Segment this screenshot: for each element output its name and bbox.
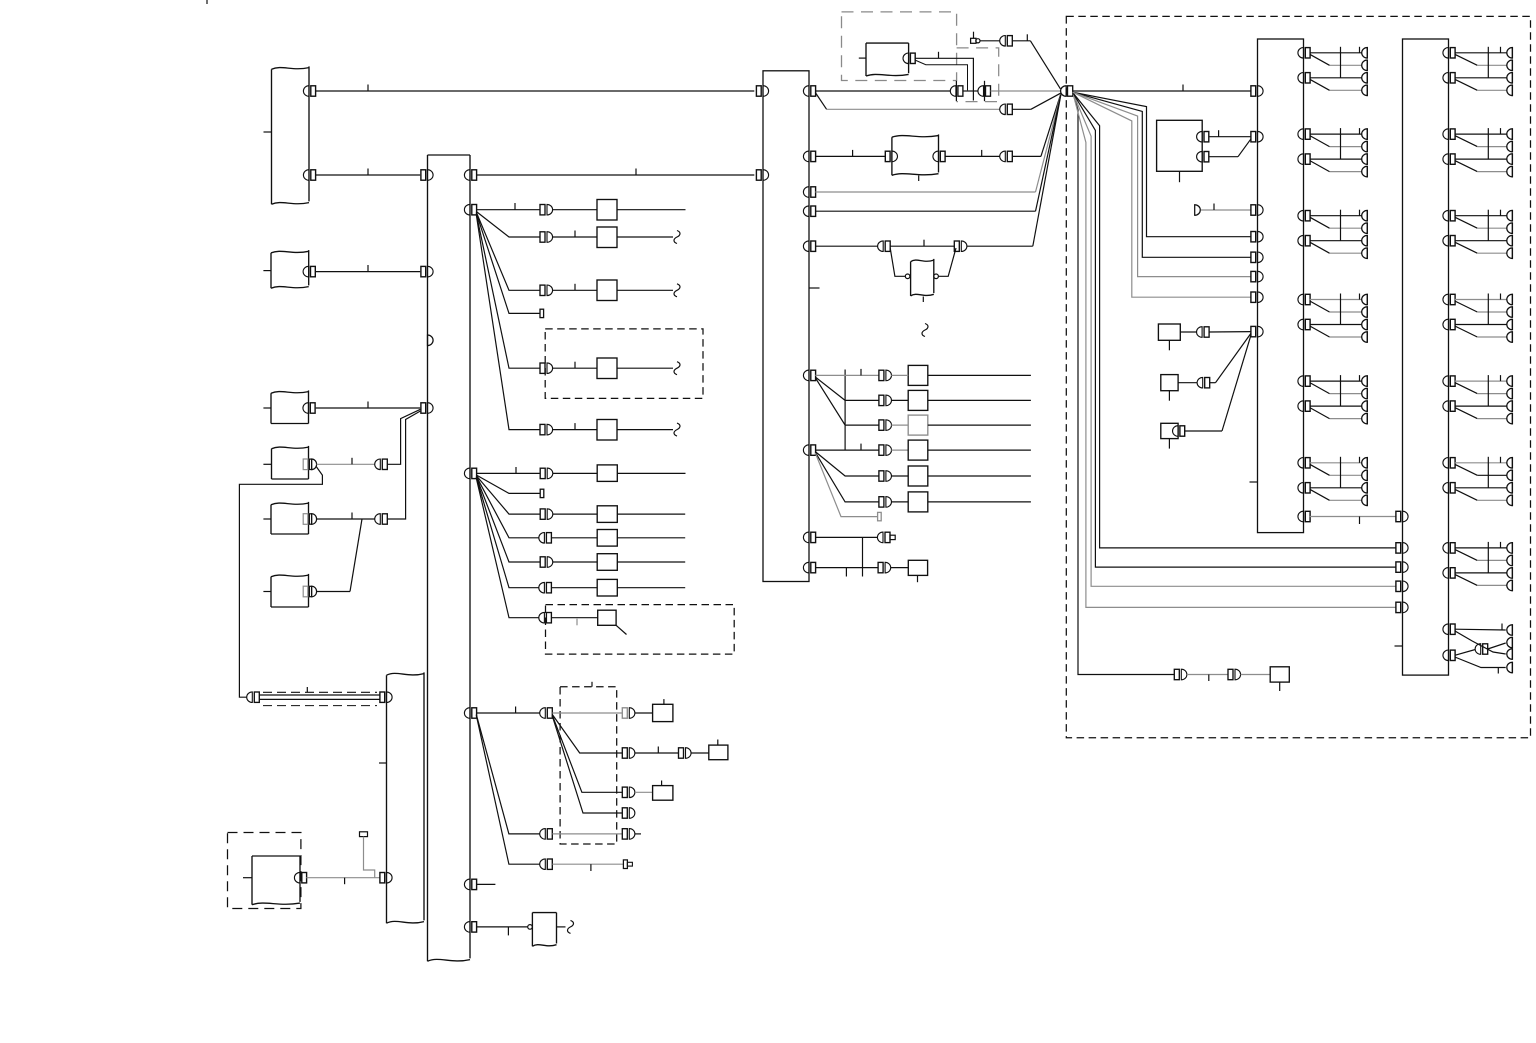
fan1 row2 module [597,227,617,248]
bundle wire 4 [1073,93,1396,568]
bar5 left pin y586 [1396,581,1408,592]
inline connector filter [1000,36,1013,47]
bundle wire A4 [1073,92,1251,297]
inline connector D [375,459,388,470]
bar3 right pin y211 [803,206,815,217]
wire y382 [1178,382,1197,384]
fanC row2 connector [879,395,892,406]
module right pin [933,151,945,162]
fan3 row3 branch wire [552,715,622,792]
wire y332 [1180,331,1196,333]
fan3 row5 connector 2 [622,829,635,840]
fanC row3 branch [815,378,879,425]
fan3 row2 connector 2 [679,748,692,759]
bar5 connector tree y52 [1443,47,1513,96]
bar4 right pin y516 [1298,511,1310,522]
bar5 left pin y567 [1396,562,1408,573]
fanC row5 module [908,466,928,486]
fan3 trunk wire [476,707,540,714]
sensor box pin 1 [1197,131,1209,142]
fan1 row3 module [597,280,617,301]
wire ground to bar2b (gray) [306,878,380,885]
wire sensor1 to bar4 [1209,130,1252,137]
continuation squiggle G [568,920,574,933]
bar4 connector tree y462 [1298,457,1367,506]
fanC row3 wire segment (gray) [891,424,908,426]
fan1 row5 squiggle [674,362,680,375]
relay pin [903,53,915,64]
component box A (torn) [264,66,310,204]
fan3 row5 branch wire [476,715,540,834]
bar4 connector tree y299 [1298,294,1367,343]
bar5 connector tree y134 [1443,128,1512,177]
fan2 row7 stub diagonal [616,625,626,634]
bottom row wire (gray) [1187,675,1228,682]
fan2 row6 connector [539,582,552,593]
wire C to bar2 [316,402,421,409]
wire y211 [815,95,1061,212]
fan3 row5 stub [635,833,641,835]
pass-through module (torn) [892,134,939,181]
bottom cluster wire 3 [1455,650,1476,656]
fan3 row1 wire (gray) [552,712,622,714]
fan2 row3 wire out [617,513,685,515]
wire y332 to bar4 [1209,331,1251,333]
junction bar 2b [387,672,425,923]
wire A1 to junction bar 3 [315,85,754,92]
fanC row6 wire segment [891,501,908,503]
fan1 row2 wire [552,231,597,238]
fanC row4 wire out [928,449,1031,451]
fan3 row2 connector [622,748,635,759]
fan2 row6 wire out [617,587,685,589]
bar2 right pin y927 [464,922,476,933]
fanC row6 connector [879,497,892,508]
fanC row1 wire (gray) [815,369,879,376]
inline connector y332 [1197,327,1210,338]
wire y246 segment 2 [890,240,954,247]
page tick mark [206,0,208,4]
fan3 row1 wire to module [635,712,653,714]
wire D to bar2 pin [387,409,420,464]
fan1 row5 wire out [617,367,673,369]
wire y246 to gateway [967,95,1061,246]
wire y568 to module [891,567,909,569]
relay box (torn) [859,43,909,76]
fanC row6 wire out [928,501,1031,503]
resistor circle pin left [905,274,910,279]
fan2 row3 connector [540,509,553,520]
bar2b edge tick [379,762,387,764]
fan1 row6 module [597,420,617,441]
fan2 row4 wire mid [551,537,597,539]
fan2 row7 wire mid [551,618,597,626]
fanC row6 module [908,492,928,512]
bottom cluster terminal 3 [1507,648,1513,659]
inline connector y568 [878,562,891,573]
bar3 right pin y156 [803,151,815,162]
relay wire b [915,60,968,90]
bar2 right pin y175 [464,170,476,181]
bottom cluster terminal 2 [1507,637,1513,648]
wire y431 diagonal to bar4 pin [1184,335,1251,431]
fanC row3 wire out [928,424,1031,426]
bundle wire 2 [1073,93,1396,608]
fanC row3 connector [879,420,892,431]
fanC row5 wire out [928,475,1031,477]
sensor box pin 2 [1197,151,1209,162]
wire y91 to gateway (gray) [991,90,1061,92]
fan2 row3 module [597,506,617,523]
sensor box y431 pin [1173,426,1185,437]
fanC row4 connector [879,445,892,456]
fanC gray stub wire [815,453,877,517]
bottom cluster terminal 4 [1498,662,1512,674]
component box G (torn) [532,913,556,947]
inline connector y156 [1000,151,1013,162]
connector pin A-2 [303,170,315,181]
bar5 connector tree y299 [1443,294,1512,343]
relay dashed enclosure 2 [957,48,999,102]
wire B to bar2 [315,265,420,272]
ground component box (torn) [243,856,300,905]
bar4 left pin y331 [1251,326,1263,337]
fanC gray stub terminal [878,512,882,520]
inline connector y109 [1000,104,1013,115]
fanC row4 wire [815,444,879,451]
bar4 edge tick y482 [1250,481,1258,483]
wire y109 to gateway [1012,93,1060,109]
bar5 left pin y516 [1396,511,1408,522]
bottom cluster wire 2 [1455,631,1506,654]
inline connector y537 [877,532,890,543]
junction bar 4 [1258,39,1304,533]
fan2 row5 connector [540,557,553,568]
fan3 row2 wire to module [691,752,709,754]
box D pin [303,459,316,470]
box B pin [303,266,315,277]
fanC row4 wire segment [891,449,908,451]
fan2 row7 module [598,610,616,625]
bar3 left pin y91 [756,86,768,97]
resistor circle pin right [934,274,939,279]
bottom cluster wire 1 [1455,624,1506,631]
fan1 row1 wire to module [552,209,597,211]
bar3 right pin y537 [803,532,815,543]
fanC row2 branch [815,377,879,400]
bar3 right pin y246 [803,241,815,252]
sensor box y332 [1158,324,1180,350]
box G circle pin [528,925,533,930]
bar4 connector tree y52 [1298,47,1367,96]
fan1 row4 stub terminal [540,309,544,317]
fan3 row6 branch wire [476,715,540,864]
box C pin [303,403,315,414]
bar2 left pin y175 [421,170,433,181]
bundle wire A2 [1073,92,1251,257]
module y568 [908,560,927,582]
fan3 row2 module [709,740,728,760]
resistor box (torn) [911,259,934,302]
fan2 row3 wire mid [553,513,598,515]
fan2 row4 branch wire [476,476,539,538]
wire y192 (gray) [815,94,1061,192]
wire y568 [815,567,878,569]
bar3 left pin y175 [756,170,768,181]
fan2 row1 connector [540,468,553,479]
bar5 edge tick y646 [1395,645,1403,647]
connector wall a [955,81,957,101]
bundle wire 1 [1073,93,1175,675]
bundle wire A1 [1073,92,1251,237]
bottom row wire 2 (gray) [1241,674,1271,676]
wire E to inline connector [317,513,375,520]
fan1 row2 wire out [617,236,673,238]
fan3 row1 module [653,699,673,722]
fan3 row1 connector [622,708,635,719]
bottom cluster wire 3b [1488,643,1506,649]
resistor branch wire left [890,248,905,276]
bar2 right pin y713 (fan3) [464,708,476,719]
shielded cable right connector [380,692,392,703]
wire D second route to shielded cable [239,467,322,698]
wire bar2 to bar3 y175 [476,169,754,176]
bar2b left pin y877 [380,872,392,883]
bottom row module [1270,667,1289,691]
fan1 row6 branch wire [476,215,540,430]
fan2 row3 branch wire [476,476,540,514]
bottom cluster terminal 1 [1507,624,1513,635]
fan1 row5 branch wire [476,214,540,368]
gray terminal dome y210 [1195,205,1201,216]
fan1 row5 wire [552,362,597,369]
fan2 row1 wire mid [553,472,598,474]
fan1 row3 wire out [617,289,673,291]
fanC row5 branch [815,452,879,476]
fan1 row6 squiggle [674,423,680,436]
gateway connector pin [1061,86,1073,97]
gateway wire to bar4 y91 [1073,85,1251,92]
inline connector E [375,514,388,525]
bottom row connector b [1228,669,1241,680]
fan1 row3 wire [552,284,597,291]
bottom cluster wire 4 [1455,657,1506,668]
fan3 row6 connector [540,859,553,870]
bar5 left pin y607 [1396,602,1408,613]
sensor box y136 (left of bar4) [1157,120,1203,182]
box F pin [303,586,316,597]
wire y91 to inline pair [815,90,950,92]
bar5 connector tree y547 [1443,542,1513,591]
component box E (torn) [263,502,308,534]
bar3 right pin y192 [803,187,815,198]
fan1 row4 branch wire [476,213,540,313]
fan2 row6 wire mid [551,587,597,589]
component box D (torn) [263,446,308,479]
fan3 dashed enclosure [560,682,617,844]
fan1 row1 module [597,200,617,221]
continuation squiggle center [922,324,928,337]
bar2 left pin y272 [421,266,433,277]
junction bar 5 [1403,39,1449,675]
wire A2 to junction bar 2 [315,169,420,176]
inline connector y382 [1197,377,1210,388]
fanC row1 wire segment [891,374,908,376]
bar5 bottom pin 1 [1443,624,1455,635]
bar2 right pin y884 stub [464,879,495,890]
bar2 left pin y408 [421,403,433,414]
bundle wire 3 [1073,93,1396,587]
bar5 connector tree y381 [1443,375,1513,424]
bar4 left pin y276 [1251,271,1263,282]
bar3 right pin y375 (fan) [803,370,815,381]
bar3 edge tick y288 [809,287,820,289]
fan1 row6 wire [552,423,597,430]
fan3 row6 cap terminal [623,860,632,869]
fan2 row5 branch wire [476,477,540,562]
sensor box y382 [1161,375,1178,401]
fanC row3 module (gray) [908,415,928,435]
wire F joining wire E [317,519,362,592]
bar5 connector tree y462 [1443,457,1513,506]
fanC row1 connector [879,370,892,381]
fan1 row2 connector [540,232,553,243]
fan1 row5 connector [540,363,553,374]
bottom cluster connector [1475,644,1488,655]
module left pin [885,151,897,162]
fan3 row3 connector [622,787,635,798]
fan2 row2 stub terminal [540,489,544,497]
fan3 trunk connector [540,708,553,719]
fan2 row5 module [597,554,617,571]
bar4 connector tree y381 [1298,375,1367,424]
relay dashed enclosure 1 [842,12,957,81]
bottom row connector a [1174,669,1187,680]
fan2 row5 wire out [617,561,685,563]
fan1 row3 connector [540,285,553,296]
fanC row4 module [908,440,928,460]
fan2 row1 wire out [617,472,685,474]
wire y156 to gateway [1012,94,1061,157]
bar4 left pin y91 [1251,86,1263,97]
fanC row2 wire out [928,399,1031,401]
wire y156 to inline pair [945,150,1000,157]
bar5 connector tree y215 [1443,210,1513,259]
bar2 spare pin dome y340 [428,335,434,346]
wire y382 diagonal to bar4 pin [1210,333,1251,383]
junction bar 3 [763,71,809,582]
fan1 row2 branch wire [476,212,540,238]
bar4 left pin y297 [1251,292,1263,303]
bar2 right pin y473 (fan2) [464,468,476,479]
wire bar4-bar5 y516 (gray) [1310,517,1396,525]
fan3 row6 wire (gray) [552,864,623,871]
bar4 connector tree y215 [1298,210,1367,259]
sensor box y431 [1161,423,1178,448]
fanC row5 connector [879,471,892,482]
bar3 right pin y568 [803,562,815,573]
bar2 right pin y210 (fan1) [464,204,476,215]
component box B (torn) [263,250,308,288]
fan2 row6 branch wire [476,477,539,587]
shielded cable left connector [247,692,260,703]
resistor branch wire right [938,248,956,276]
bar5 left pin y547 [1396,543,1408,554]
wire y109 (gray) [827,108,1000,110]
bundle wire A3 [1073,92,1251,276]
fan2 row4 connector [539,533,552,544]
inline connector pair y91 b [978,86,991,97]
fan1 row3 branch wire [476,212,540,290]
shielded cable [259,687,380,706]
bar3 right pin y91 [803,86,815,97]
fanC row2 wire segment [891,399,908,401]
wire y156 to module [815,150,885,157]
fanC row1 module [908,365,928,385]
connector pin A-1 [303,86,315,97]
bar4 left pin y136 [1251,131,1263,142]
inline connector y246 a [878,241,891,252]
branch diag y92-109 [815,93,826,110]
fan1 row3 squiggle [674,284,680,297]
component box F (torn) [263,574,308,607]
fanC row1 wire out [928,374,1031,376]
fan3 row3 module [653,781,673,801]
fan1 row6 wire out [617,429,673,431]
fan2 row7 branch wire [476,478,539,618]
bar4 left pin y257 [1251,252,1263,263]
wire y210 (gray) [1201,204,1251,211]
fan1 row2 squiggle [674,231,680,244]
fanC row6 branch [815,452,879,502]
engine compartment dashed enclosure [1066,16,1530,737]
filter wire [980,40,1000,42]
junction vertical y537-576 [846,537,862,576]
fanC row2 module [908,390,928,410]
fan1 row5 module [597,358,617,379]
relay wire a [915,52,974,101]
fan3 row5 connector [540,829,553,840]
fan junction vertical [844,370,846,451]
junction bar 2 [428,155,471,961]
noise filter component [971,32,980,44]
fan3 row2 branch wire [552,715,622,754]
cap terminal y537 [890,535,895,539]
fan2 row1 module [597,465,617,482]
connector wall b [984,81,986,101]
box E pin [303,514,316,525]
noise capacitor symbol [360,832,375,878]
bundle wire 5 [1073,93,1396,548]
ground box pin [294,872,306,883]
wire D (gray) to inline connector [317,458,375,465]
wire sensor2 to bar4 [1209,139,1252,157]
wire G continuation [557,926,566,928]
wire y537 [815,536,877,538]
inline connector y246 b [954,241,967,252]
fan2 row4 wire out [617,537,685,539]
bar3 right pin y450 (fan) [803,445,815,456]
bar4 left pin y236 [1251,231,1263,242]
fan3 row4 branch wire [552,716,622,813]
bar4 connector tree y134 [1298,128,1367,177]
fan1 row6 connector [540,424,553,435]
filter wire to gateway [1012,34,1060,89]
fan1 row1 wire [476,203,540,210]
inline connector pair y91 a [950,86,963,97]
fan2 row6 module [597,579,617,596]
fan3 row2 wire mid [635,747,679,754]
